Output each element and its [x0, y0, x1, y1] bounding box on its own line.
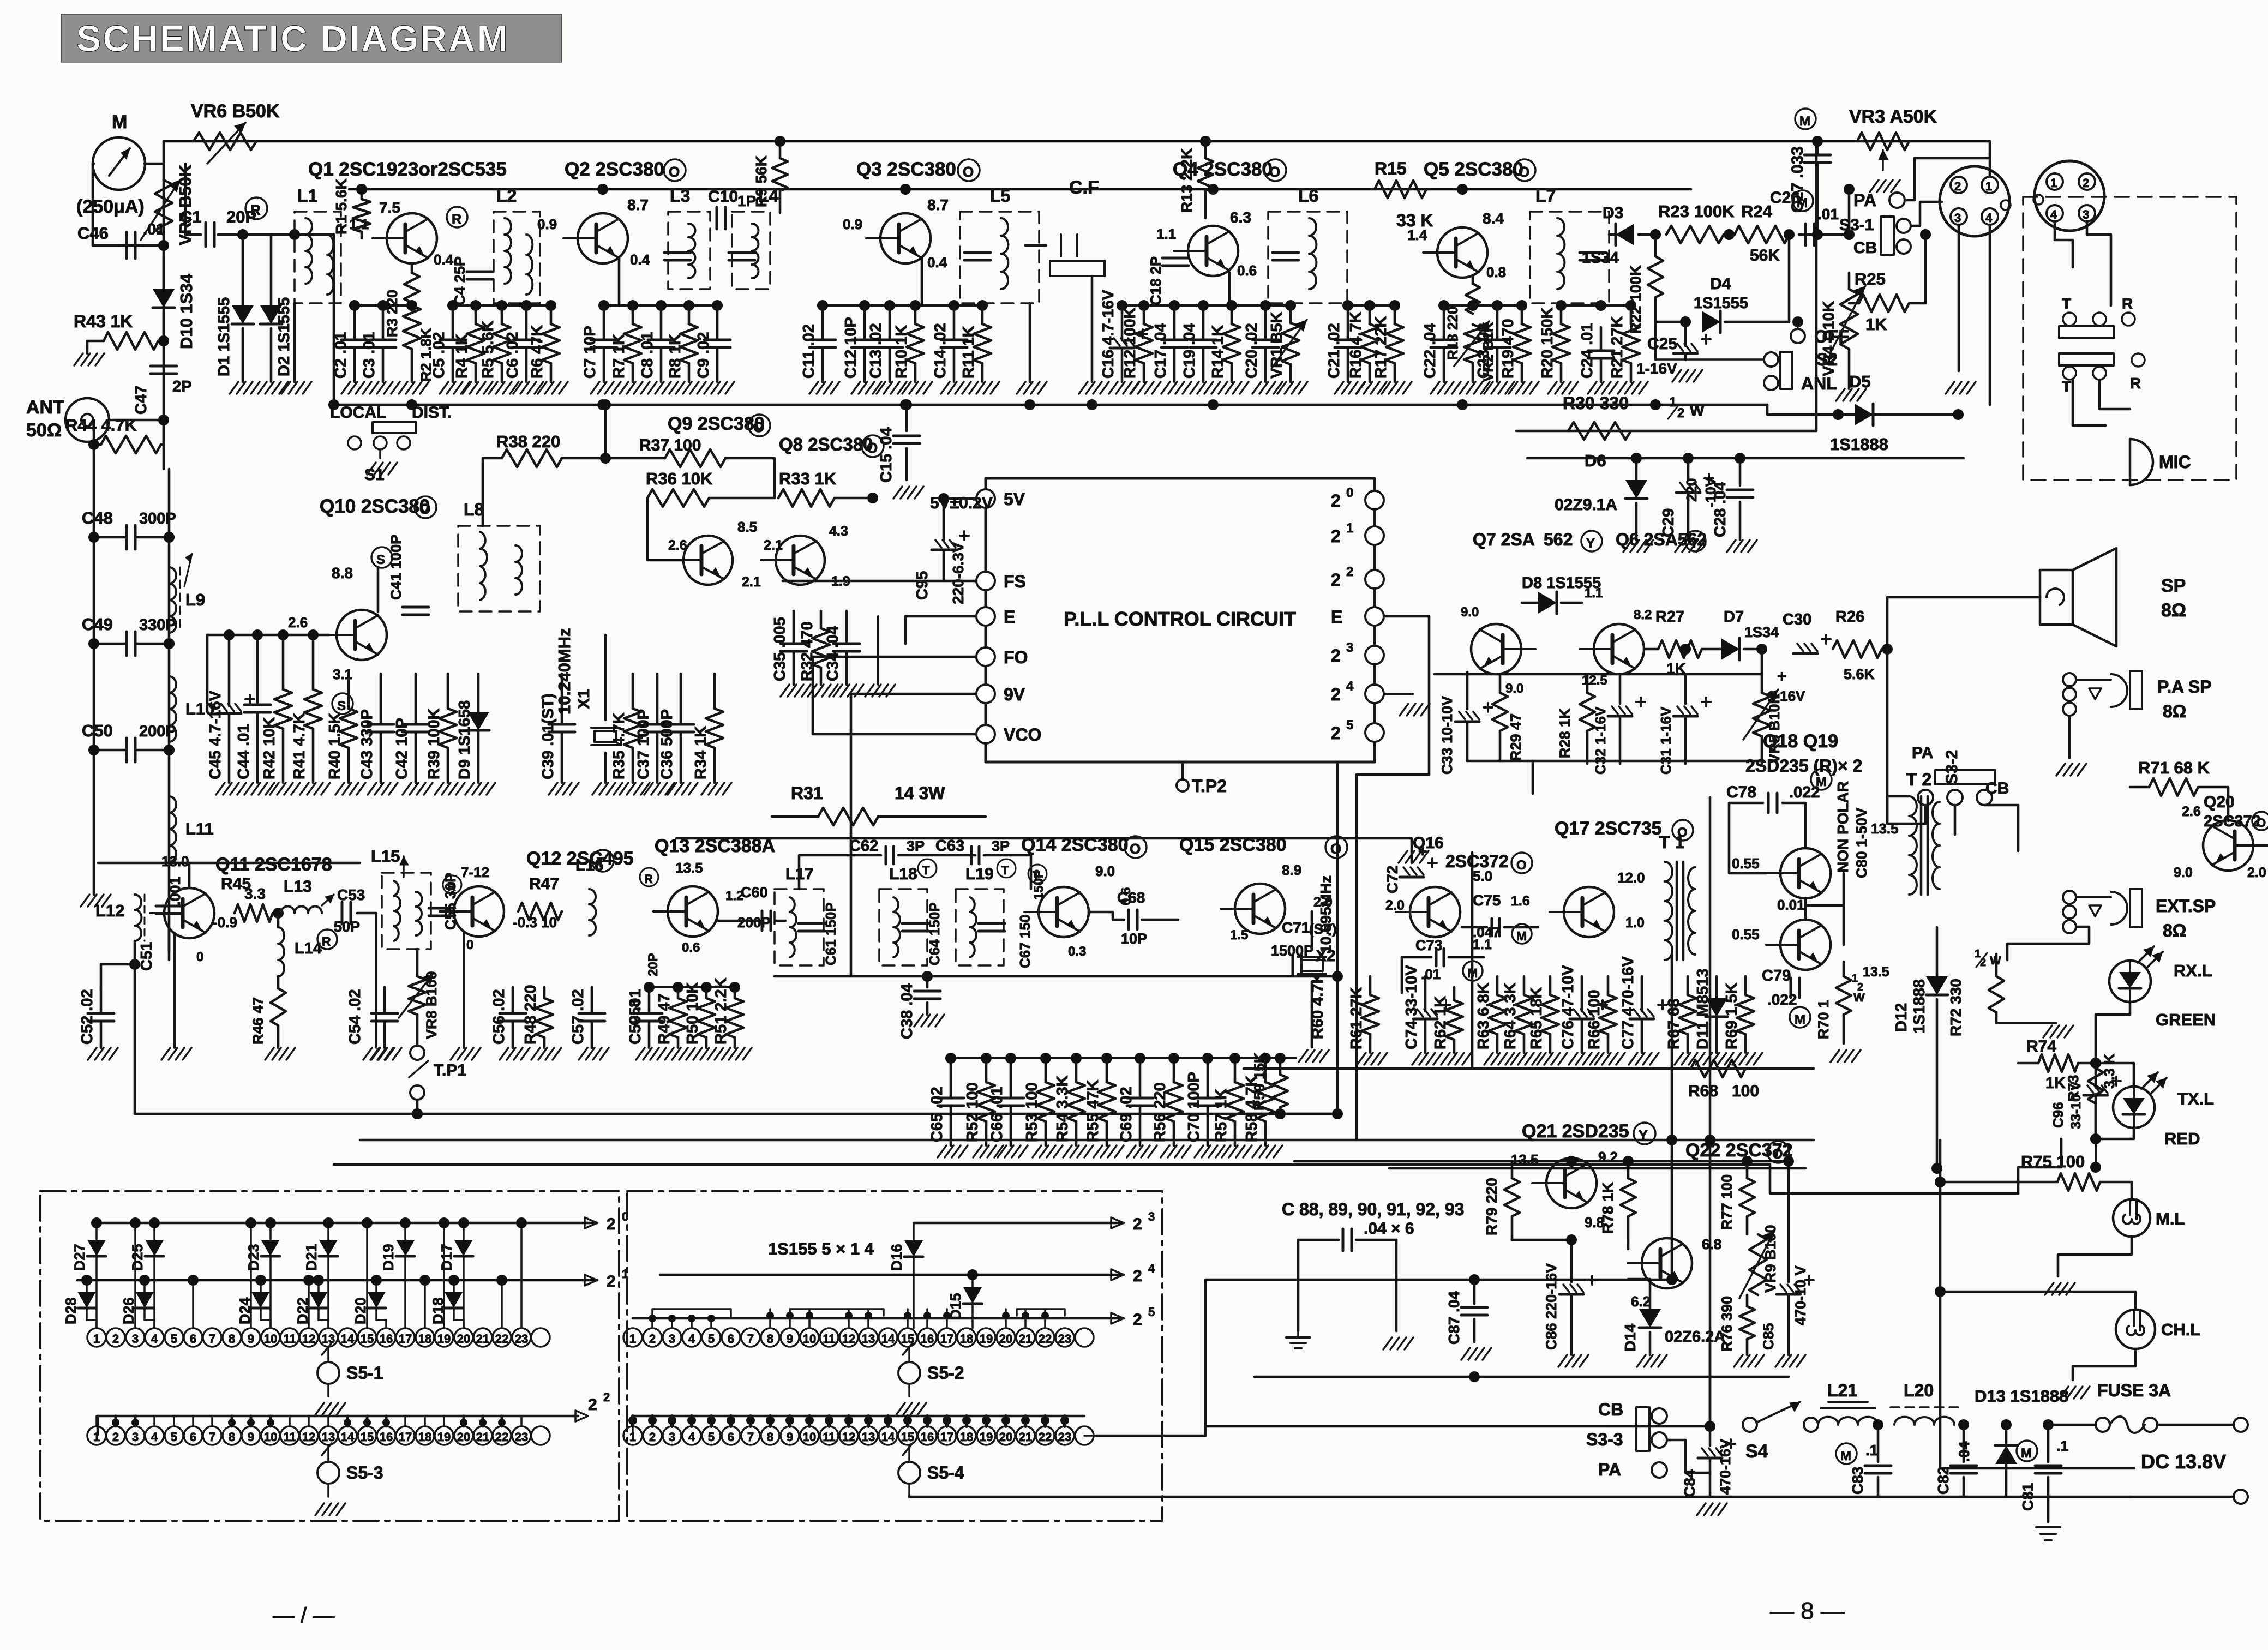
resistor R49 47: [677, 987, 680, 998]
diode D19: [404, 1223, 406, 1240]
svg-text:O: O: [1772, 1147, 1783, 1162]
svg-text:T: T: [2062, 378, 2071, 395]
capacitor C45 4.7-16V: [228, 635, 231, 706]
zener D14 02Z6.2A: [1649, 1287, 1652, 1309]
svg-text:W: W: [1690, 402, 1705, 419]
node junction 1660 742: [900, 399, 911, 410]
svg-text:T: T: [1001, 863, 1009, 877]
svg-text:R78 1K: R78 1K: [1599, 1182, 1616, 1234]
svg-text:CB: CB: [1853, 239, 1877, 257]
transistor Q5: [1437, 227, 1487, 278]
svg-text:C72: C72: [1384, 866, 1401, 893]
svg-text:R34 1K: R34 1K: [692, 726, 710, 779]
connector plug 1: [1940, 166, 2009, 236]
svg-text:200P: 200P: [737, 914, 771, 931]
wire stage1 leg rail a: [355, 304, 412, 307]
resistor R1 5.6K: [361, 189, 363, 199]
wire SP line: [1887, 597, 2040, 649]
matrix1 channel 21: [473, 1328, 492, 1347]
capacitor C55 30P: [429, 907, 455, 910]
svg-text:02Z9.1A: 02Z9.1A: [1555, 496, 1617, 514]
svg-text:R43 1K: R43 1K: [74, 311, 133, 331]
transistor Q18: [1780, 848, 1831, 898]
svg-text:O: O: [963, 164, 974, 180]
svg-text:M: M: [1467, 966, 1478, 980]
transistor Q12: [454, 886, 504, 937]
matrix2 channel 13: [859, 1328, 878, 1347]
wire top bus: [164, 140, 1990, 143]
svg-text:3: 3: [132, 1430, 139, 1444]
svg-text:R28 1K: R28 1K: [1557, 708, 1573, 758]
PLL pin E: [976, 607, 995, 626]
wire x3245 v: [1770, 1165, 2018, 1193]
node junction 1660 347: [900, 184, 911, 195]
svg-text:L3: L3: [670, 186, 690, 206]
svg-text:1K: 1K: [1865, 315, 1887, 334]
svg-text:21: 21: [476, 1332, 489, 1346]
matrix1 row2 channel 9: [242, 1426, 260, 1445]
PLL pin 2^4: [1365, 685, 1384, 703]
svg-text:2: 2: [1331, 526, 1341, 546]
meter M: [93, 137, 145, 190]
capacitor C83 .1: [1873, 1419, 1883, 1430]
svg-text:2.1: 2.1: [742, 574, 761, 590]
matrix1 bus 2^1: [77, 1279, 597, 1282]
wire R30 rail: [1516, 430, 1816, 433]
svg-text:R71 68 K: R71 68 K: [2138, 758, 2210, 777]
node junction 2002 742: [1087, 399, 1097, 410]
transistor Q4: [1188, 226, 1238, 276]
wire stage1 leg rail e: [1122, 304, 1291, 307]
matrix2 row2 channel 16: [918, 1426, 937, 1445]
coil L3: [668, 212, 710, 289]
svg-text:R61 27K: R61 27K: [1348, 987, 1365, 1049]
matrix2 row2 channel 10: [800, 1426, 819, 1445]
transistor Q3: [880, 213, 931, 263]
svg-text:C86 220-16V: C86 220-16V: [1543, 1263, 1559, 1350]
svg-text:D3: D3: [1603, 204, 1623, 222]
capacitor C42 10P: [415, 674, 417, 723]
svg-text:33-10 V: 33-10 V: [2068, 1081, 2084, 1129]
svg-text:2: 2: [603, 1390, 610, 1404]
matrix dash-dot box 2: [627, 1191, 1162, 1521]
svg-text:-0.9: -0.9: [213, 914, 237, 931]
wire IF legs rail: [951, 1057, 1296, 1059]
svg-text:1.5: 1.5: [1230, 928, 1248, 943]
wire Q4 emitter stub: [1228, 273, 1231, 305]
coil L14: [277, 913, 280, 927]
matrix1 channel 14: [338, 1328, 357, 1347]
capacitor C12 10P: [863, 305, 866, 339]
wire Q12 emitter: [463, 931, 465, 1048]
wire mic box: [2073, 380, 2105, 425]
svg-text:2: 2: [1133, 1267, 1142, 1285]
svg-text:.1: .1: [2056, 1438, 2069, 1454]
node bus junction 1430: [775, 136, 785, 147]
svg-text:C63: C63: [935, 837, 964, 855]
resistor R50 10K: [705, 987, 708, 998]
capacitor C43 330P: [380, 674, 382, 723]
capacitor C28 .04: [1739, 458, 1742, 485]
ground PA SP: [2068, 716, 2071, 758]
resistor R47: [518, 903, 562, 920]
resistor R78 1K: [1627, 1161, 1630, 1178]
transformer L15: [382, 873, 431, 949]
svg-text:0.6: 0.6: [1237, 262, 1257, 279]
svg-text:D23: D23: [245, 1244, 262, 1271]
svg-text:P.A SP: P.A SP: [2157, 677, 2212, 697]
svg-text:4: 4: [151, 1332, 158, 1346]
matrix2 channel 17: [938, 1328, 956, 1347]
svg-text:4: 4: [688, 1430, 695, 1444]
resistor R73 3.3K: [2095, 1053, 2097, 1068]
svg-text:R8 1K: R8 1K: [667, 334, 684, 379]
matrix2 row2 channel 19: [977, 1426, 995, 1445]
resistor R12 100K: [1143, 305, 1145, 324]
matrix2 row2 channel 11: [820, 1426, 838, 1445]
svg-text:Q2 2SC380: Q2 2SC380: [565, 159, 664, 180]
matrix2 empty pin: [1075, 1328, 1094, 1347]
capacitor C37 100P: [656, 674, 659, 723]
wire conn2 pins: [2055, 221, 2073, 267]
svg-text:R48 220: R48 220: [522, 985, 539, 1045]
coil L5: [960, 212, 1039, 303]
svg-text:S5-3: S5-3: [346, 1463, 383, 1483]
matrix1 row2 channel 5: [165, 1426, 183, 1445]
svg-text:P.L.L CONTROL CIRCUIT: P.L.L CONTROL CIRCUIT: [1064, 608, 1296, 630]
svg-text:D6: D6: [1585, 451, 1606, 470]
capacitor C7 10P: [603, 305, 605, 339]
switch S2 ANL: [1764, 352, 1778, 367]
svg-text:C35 .005: C35 .005: [771, 617, 789, 681]
svg-text:4.3: 4.3: [829, 524, 848, 539]
svg-text:18: 18: [960, 1332, 973, 1346]
capacitor C29 220-10V: [1687, 458, 1690, 480]
coil L1: [295, 212, 341, 303]
resistor R48 220: [543, 987, 546, 998]
svg-text:T 1: T 1: [1659, 832, 1684, 852]
svg-text:R65 18K: R65 18K: [1528, 987, 1545, 1049]
svg-text:D28: D28: [63, 1297, 79, 1324]
svg-text:C27 .033: C27 .033: [1789, 146, 1807, 213]
matrix2 row2 channel 2: [643, 1426, 662, 1445]
matrix1 row2 channel 16: [377, 1426, 395, 1445]
svg-text:0.8: 0.8: [1486, 264, 1506, 280]
diode D16: [913, 1223, 915, 1240]
svg-text:2: 2: [1331, 685, 1341, 704]
capacitor C30 1-16V: [1762, 649, 1795, 650]
svg-text:11: 11: [283, 1430, 296, 1444]
speaker SP: [2040, 570, 2073, 625]
node junction 612 742: [328, 399, 339, 410]
svg-text:C53: C53: [337, 886, 365, 903]
matrix1 row2 channel 8: [223, 1426, 241, 1445]
svg-text:2: 2: [112, 1332, 119, 1346]
svg-text:C47: C47: [133, 386, 150, 415]
svg-text:R72 330: R72 330: [1947, 979, 1964, 1036]
node junction 310 1180: [164, 638, 175, 649]
wire power top: [1709, 1280, 1711, 1331]
node junction 2452 2042: [1332, 1108, 1343, 1119]
terminal DC minus: [2234, 1490, 2248, 1504]
svg-text:— / —: — / —: [273, 1604, 334, 1628]
svg-text:C33 10-10V: C33 10-10V: [1439, 696, 1455, 775]
svg-text:D16: D16: [889, 1244, 905, 1271]
svg-text:1S1555: 1S1555: [1694, 295, 1748, 312]
svg-text:S3-3: S3-3: [1586, 1430, 1623, 1449]
matrix2 channel 12: [839, 1328, 858, 1347]
matrix2 row2 channel 9: [781, 1426, 799, 1445]
svg-text:L19: L19: [965, 865, 994, 883]
wire Q11 top feed: [98, 862, 360, 865]
svg-text:1: 1: [1669, 395, 1676, 410]
svg-text:R12 100K: R12 100K: [1121, 307, 1139, 379]
resistor R10 1K: [914, 305, 917, 324]
capacitor C66 .01: [1010, 1058, 1012, 1097]
svg-text:C75: C75: [1473, 892, 1501, 909]
svg-text:23: 23: [1058, 1332, 1071, 1346]
svg-text:1.4: 1.4: [1407, 227, 1427, 243]
svg-text:3: 3: [2083, 208, 2089, 221]
svg-text:X1: X1: [575, 689, 593, 709]
svg-text:C5 .02: C5 .02: [430, 332, 448, 379]
coil L18: [879, 889, 927, 965]
svg-text:23: 23: [515, 1430, 528, 1444]
capacitor C81 .1: [2043, 1419, 2054, 1430]
svg-text:5: 5: [171, 1430, 177, 1444]
svg-text:R49 47: R49 47: [656, 993, 673, 1045]
svg-text:R17 22K: R17 22K: [1372, 316, 1390, 379]
capacitor C32 1-16V: [1619, 674, 1622, 704]
svg-text:L16: L16: [575, 856, 604, 874]
svg-text:M: M: [1516, 929, 1527, 943]
capacitor C50 200P: [125, 738, 128, 762]
wire matrix right: [1084, 1435, 1096, 1437]
wire meter to rail: [145, 163, 164, 165]
svg-text:11: 11: [283, 1332, 296, 1346]
svg-text:R30 330: R30 330: [1563, 393, 1629, 413]
resistor R30 330 1/2W: [1568, 422, 1631, 440]
svg-text:C59 .01: C59 .01: [627, 989, 644, 1045]
svg-text:R50 10K: R50 10K: [684, 982, 701, 1045]
svg-text:O: O: [1269, 164, 1280, 180]
svg-text:9.0: 9.0: [2174, 865, 2193, 880]
resistor R66 100: [1607, 976, 1610, 995]
svg-text:S: S: [376, 553, 385, 567]
matrix2 channel 10: [800, 1328, 819, 1347]
svg-text:DIST.: DIST.: [412, 404, 452, 422]
capacitor C21 .02: [1347, 305, 1349, 339]
svg-text:1.6: 1.6: [1511, 893, 1530, 909]
svg-text:14: 14: [881, 1332, 895, 1346]
ground C53 leg: [375, 913, 377, 1048]
wire left column: [93, 420, 95, 895]
wire FS link: [783, 580, 976, 583]
svg-text:0.3: 0.3: [1068, 944, 1086, 959]
svg-text:13.5: 13.5: [1863, 964, 1889, 980]
coil L8: [458, 526, 540, 611]
svg-text:R47: R47: [529, 875, 559, 893]
svg-text:15: 15: [901, 1430, 914, 1444]
matrix1 col 15: [366, 1223, 368, 1328]
resistor R40 1.5K: [347, 674, 350, 709]
svg-text:8.4: 8.4: [1483, 210, 1504, 227]
svg-text:R40 1.5K: R40 1.5K: [326, 712, 344, 779]
svg-text:O: O: [2257, 816, 2266, 830]
svg-text:R68: R68: [1688, 1082, 1718, 1100]
svg-text:R37 100: R37 100: [639, 436, 701, 454]
resistor R31 14 3W: [818, 808, 878, 825]
svg-text:SP: SP: [2161, 575, 2186, 596]
coil L7: [1530, 212, 1609, 303]
svg-text:R7 1K: R7 1K: [610, 334, 628, 379]
svg-text:7: 7: [209, 1332, 215, 1346]
svg-text:D19: D19: [380, 1244, 397, 1271]
svg-text:8.9: 8.9: [1282, 862, 1301, 878]
matrix1 channel 13: [319, 1328, 338, 1347]
resistor R46 47: [271, 988, 286, 1025]
LED RX.L GREEN: [2109, 961, 2151, 1002]
svg-text:10: 10: [803, 1430, 816, 1444]
ground C88 right: [1383, 1337, 1392, 1349]
svg-text:CB: CB: [1598, 1400, 1623, 1419]
svg-text:R20 150K: R20 150K: [1539, 307, 1556, 379]
matrix1 channel 2: [106, 1328, 125, 1347]
svg-text:13: 13: [322, 1430, 335, 1444]
svg-text:5: 5: [708, 1332, 715, 1346]
svg-text:Q10 2SC380: Q10 2SC380: [320, 496, 430, 517]
coil L12: [135, 895, 141, 941]
svg-text:3: 3: [132, 1332, 139, 1346]
svg-text:C67 150: C67 150: [1017, 915, 1033, 968]
PLL pin 2^0: [1365, 491, 1384, 509]
capacitor C34 .04: [845, 611, 848, 643]
matrix2 channel 15: [898, 1328, 917, 1347]
resistor R28 1K: [1586, 674, 1589, 693]
matrix1 channel 16: [377, 1328, 395, 1347]
svg-text:R70 1: R70 1: [1815, 1000, 1832, 1039]
svg-text:9.0: 9.0: [1505, 681, 1523, 696]
svg-text:C74 33-10V: C74 33-10V: [1403, 965, 1420, 1049]
wire Q1 emitter stub: [334, 234, 355, 235]
svg-text:10: 10: [803, 1332, 816, 1346]
matrix1 row2 channel 7: [203, 1426, 221, 1445]
svg-text:8.7: 8.7: [927, 196, 949, 213]
wire R75 vline: [1939, 1140, 1942, 1468]
svg-text:R: R: [250, 202, 261, 218]
svg-text:6.3: 6.3: [1230, 209, 1251, 226]
svg-text:20: 20: [457, 1430, 470, 1444]
matrix1 bus 2^2: [98, 1415, 578, 1418]
svg-text:11: 11: [823, 1430, 835, 1444]
svg-text:19: 19: [437, 1332, 451, 1346]
svg-text:13: 13: [862, 1430, 875, 1444]
wire ant rail down: [163, 420, 165, 469]
resistor R53 100: [1045, 1058, 1047, 1082]
matrix2 channel 4: [682, 1328, 701, 1347]
svg-text:M: M: [1799, 114, 1810, 129]
transistor Q14: [1039, 887, 1089, 937]
svg-text:470-16V: 470-16V: [1717, 1439, 1733, 1495]
ground Q8 E: [877, 616, 879, 685]
capacitor C14 .02: [953, 305, 956, 339]
diode D28: [86, 1280, 88, 1292]
svg-text:3: 3: [1148, 1210, 1155, 1223]
svg-text:6.2: 6.2: [1631, 1293, 1651, 1310]
coil L10: [169, 676, 176, 742]
node junction 765 2042: [412, 1108, 423, 1119]
wire T2 wiring: [1804, 898, 1807, 920]
capacitor C60: [761, 911, 764, 931]
svg-text:T: T: [922, 863, 930, 877]
svg-text:T 2: T 2: [1906, 770, 1931, 789]
wire q16 feed: [676, 838, 1412, 863]
svg-text:15: 15: [361, 1430, 374, 1444]
svg-text:C66 .01: C66 .01: [988, 1087, 1006, 1142]
coil L6: [1268, 212, 1347, 303]
svg-text:1: 1: [1985, 179, 1992, 193]
wire conn1 pin4 down: [1989, 225, 1991, 405]
svg-text:Q15 2SC380: Q15 2SC380: [1179, 835, 1287, 855]
matrix1 row2 channel 2: [106, 1426, 125, 1445]
svg-text:Q5 2SC380: Q5 2SC380: [1424, 159, 1523, 180]
svg-text:R56 220: R56 220: [1151, 1082, 1169, 1142]
wire audio bottom rail: [1245, 1113, 1337, 1115]
svg-text:L6: L6: [1298, 186, 1318, 206]
svg-text:C83: C83: [1849, 1467, 1866, 1495]
wire stage rail: [349, 188, 1691, 191]
capacitor C48 300P: [125, 525, 128, 549]
svg-text:4: 4: [1985, 211, 1993, 225]
svg-text:D17: D17: [439, 1244, 455, 1271]
resistor R67 68: [1687, 976, 1689, 995]
diode D22: [317, 1280, 320, 1292]
svg-text:C85: C85: [1760, 1323, 1777, 1350]
matrix1 col 22: [501, 1280, 503, 1328]
svg-text:R46 47: R46 47: [250, 997, 266, 1045]
diode D7 1S34: [1702, 648, 1721, 651]
wire x2487 v: [1355, 775, 1358, 1140]
svg-text:13.5: 13.5: [1511, 1151, 1539, 1168]
svg-text:C6 .02: C6 .02: [504, 332, 521, 379]
resistor R59 15K: [1279, 1058, 1282, 1075]
svg-text:0: 0: [1346, 485, 1353, 500]
svg-text:1S155 5 × 1 4: 1S155 5 × 1 4: [768, 1239, 874, 1258]
svg-text:3: 3: [669, 1430, 675, 1444]
resistor R64 3.3K: [1523, 976, 1526, 995]
capacitor C49 330P: [125, 632, 128, 656]
svg-text:8.7: 8.7: [627, 196, 649, 213]
svg-text:0.4: 0.4: [630, 251, 650, 268]
matrix1 channel 10: [261, 1328, 280, 1347]
wire x2699 v: [1471, 853, 1474, 1069]
svg-text:FUSE 3A: FUSE 3A: [2097, 1381, 2171, 1400]
svg-text:R57 1K: R57 1K: [1213, 1089, 1230, 1142]
capacitor C23 .02: [1496, 305, 1499, 339]
switch S3-1: [1881, 217, 1894, 255]
svg-text:1: 1: [622, 1267, 628, 1281]
svg-text:C41 100P: C41 100P: [388, 535, 404, 600]
matrix1 col 3: [134, 1223, 136, 1328]
svg-text:CB: CB: [1985, 779, 2009, 797]
node junction 310 1375: [164, 745, 175, 755]
svg-text:C56 .02: C56 .02: [490, 989, 508, 1045]
transistor Q21: [1546, 1158, 1597, 1208]
node junction 2703 2524: [1469, 1371, 1480, 1382]
potentiometer VR4 D10K: [1848, 273, 1851, 289]
transistor Q6 2SA562: [1594, 624, 1644, 674]
svg-text:RX.L: RX.L: [2174, 961, 2212, 980]
